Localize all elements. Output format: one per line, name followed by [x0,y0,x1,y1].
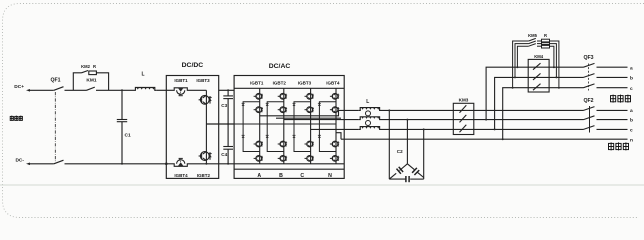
breaker QF3 pole a [584,63,628,67]
svg-text:N: N [328,173,332,179]
svg-text:c: c [630,87,633,92]
wire phase a to KM3 [381,109,584,111]
wire DC+ input [28,89,54,91]
inverter leg C [305,88,314,164]
junction DC- at box edge [165,163,167,165]
capacitor C1 [117,90,127,164]
DC+ terminal [26,89,30,92]
svg-text:IGBT3: IGBT3 [196,78,210,83]
inverter box DC/AC [234,76,344,179]
inductor L phase b [359,117,381,120]
inverter leg B [278,88,287,164]
svg-text:DC+: DC+ [14,84,24,90]
wire DC+ inside box [166,89,173,91]
svg-text:KM1: KM1 [86,77,96,83]
svg-text:DC-: DC- [15,158,24,164]
DC- terminal [26,163,30,166]
clamp diodes leg A [243,102,260,152]
IGBT1 (horizontal, on DC+ rail) [173,88,189,96]
precharge loop a (inner): KM5 + R [517,44,554,68]
wire neutral output step [336,133,341,140]
clamp diodes leg B [267,102,284,152]
breaker QF2 pole b [584,116,628,120]
svg-text:KM4: KM4 [534,54,544,59]
svg-text:L: L [141,72,144,78]
breaker QF2 linkage [589,106,591,133]
junction loop b left [514,76,516,78]
wire DC- bus between boxes [219,163,345,165]
junction loop b right [555,76,557,78]
wire DC+ bus between boxes [219,89,234,91]
inverter leg A [254,88,263,164]
svg-text:DC/AC: DC/AC [269,63,291,70]
junction loop c right [558,87,560,89]
junction C3 top [227,89,229,91]
junction riser c [502,138,504,140]
wire inner bus [276,117,341,119]
svg-text:C1: C1 [125,133,131,139]
coupling circle 1 [366,111,371,116]
breaker QF2 pole a [584,107,628,111]
svg-text:C2: C2 [397,149,403,154]
coupling circle 2 [366,121,371,126]
contactor KM3 pole a [460,105,467,113]
junction C2 tap a [388,109,390,111]
junction loop a right [553,66,555,68]
svg-text:IGBT4: IGBT4 [174,173,188,178]
inverter leg N [330,88,339,164]
svg-text:n: n [630,138,633,143]
svg-text:a: a [630,109,633,114]
junction C1 bottom [121,163,123,165]
clamp diodes leg C [294,102,311,152]
svg-text:DC/DC: DC/DC [182,62,204,69]
DC/AC bottom label strip line [234,168,344,170]
capacitor bank C2 (delta) [389,110,423,182]
riser wire to grid line b [495,77,584,129]
svg-text:IGBT3: IGBT3 [298,80,312,85]
contactor KM4 box [528,59,549,92]
junction C2 tap c [423,128,425,130]
wire phase A output [260,110,359,115]
svg-text:b: b [630,76,633,82]
IGBT2 (vertical lower) [199,124,212,164]
svg-text:QF2: QF2 [583,98,593,104]
wire DC mid link [206,123,234,125]
breaker QF3 pole c [584,84,628,88]
converter box DC/DC [166,76,218,179]
contactor KM3 box [453,103,474,134]
junction C3/C4 mid [227,123,229,125]
breaker QF1 linkage [54,92,56,162]
svg-text:IGBT1: IGBT1 [174,78,188,83]
svg-text:QF3: QF3 [583,55,593,61]
contactor KM4 pole a [533,63,541,69]
inductor L phase c [359,127,381,130]
svg-text:A: A [257,173,261,179]
IGBT4 (horizontal, on DC- rail) [166,158,218,166]
wire DC- input [28,163,54,165]
faint page line [0,184,644,186]
svg-text:KM3: KM3 [459,98,469,103]
wire phase c to KM3 [381,128,584,130]
label 电网侧 (grid side) [611,95,631,103]
junction loop c left [512,87,514,89]
svg-text:C: C [300,173,304,179]
svg-text:a: a [630,66,633,71]
wire L to DC/DC [156,89,166,91]
clamp diodes leg N [319,102,336,152]
junction C2 tap b [406,119,408,121]
breaker QF3 linkage [588,64,590,91]
svg-text:C3: C3 [221,103,227,108]
contactor KM1 [87,87,135,90]
contactor KM4 pole c [533,84,541,91]
svg-text:B: B [279,173,283,179]
svg-text:c: c [630,129,633,134]
IGBT3 (vertical) [199,90,212,124]
svg-text:KM5: KM5 [528,33,538,38]
wire neutral n line [341,138,628,140]
inductor L phase a [359,108,381,111]
contactor KM3 pole b [460,115,467,123]
svg-text:L: L [366,99,369,105]
breaker QF3 pole b [584,74,628,78]
svg-text:IGBT1: IGBT1 [250,80,264,85]
junction riser a [485,119,487,121]
junction riser b [494,128,496,130]
svg-text:IGBT2: IGBT2 [273,80,287,85]
svg-text:IGBT4: IGBT4 [326,80,340,85]
breaker QF1 pole 2 [54,160,167,164]
wire phase C output [311,128,359,130]
junction IGBT2 emitter on DC- [205,163,207,165]
label 直流侧 (DC side) [10,116,22,121]
svg-text:R: R [544,33,547,38]
inductor L (DC) [134,88,156,91]
riser wire to grid line c [503,88,584,140]
precharge loop b (middle): KM5 + R [515,41,556,77]
capacitor C3 [223,90,233,146]
wire phase b to KM3 [381,119,584,121]
svg-text:b: b [630,118,633,124]
precharge branch KM2 + R [73,71,108,91]
precharge loop c (outer): KM5 + R [513,38,559,87]
svg-text:IGBT2: IGBT2 [197,173,211,178]
contactor KM3 pole c [460,125,467,133]
breaker QF1 pole 1 [54,87,87,91]
svg-text:C4: C4 [221,152,227,157]
capacitor C4 [223,147,233,164]
wire DC+ to IGBT3 [189,89,207,91]
breaker QF2 pole c [584,126,628,130]
junction loop a left [516,66,518,68]
svg-text:R: R [93,64,96,69]
riser wire to grid line a [486,67,583,119]
junction C4 bottom [227,163,229,165]
wire neutral rail [234,123,336,125]
DC/AC top label strip line [234,87,344,89]
contactor KM4 pole b [533,73,541,80]
svg-text:QF1: QF1 [50,78,60,84]
wire phase B output [284,119,359,121]
junction C1 top [121,89,123,91]
svg-text:KM2: KM2 [81,64,91,69]
label 负载侧 (load side) [609,142,629,150]
